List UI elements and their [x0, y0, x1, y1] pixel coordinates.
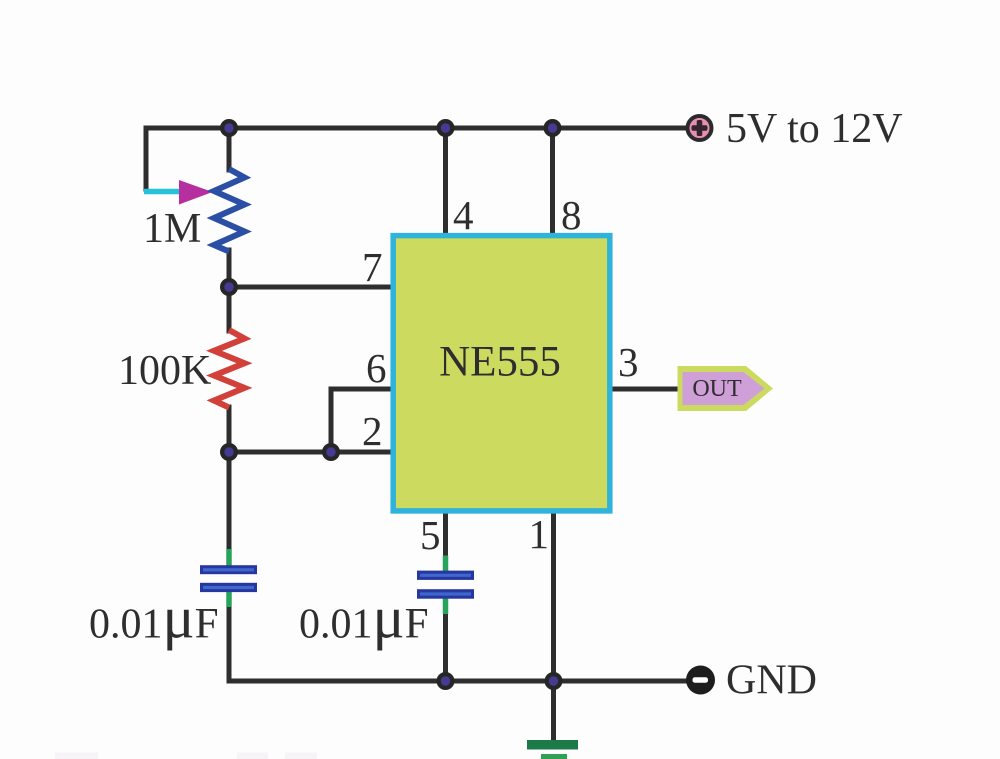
svg-text:5V to 12V: 5V to 12V	[726, 106, 903, 152]
svg-text:100K: 100K	[118, 348, 211, 394]
svg-text:5: 5	[420, 512, 441, 558]
svg-text:1: 1	[529, 511, 550, 557]
svg-text:2: 2	[362, 408, 383, 454]
svg-text:NE555: NE555	[439, 339, 561, 386]
svg-text:6: 6	[366, 345, 387, 391]
svg-text:3: 3	[618, 339, 639, 385]
svg-text:GND: GND	[726, 658, 817, 704]
svg-text:7: 7	[362, 244, 383, 290]
svg-text:1M: 1M	[143, 206, 201, 252]
svg-text:4: 4	[453, 192, 474, 238]
svg-text:8: 8	[561, 192, 582, 238]
svg-text:OUT: OUT	[692, 376, 742, 402]
